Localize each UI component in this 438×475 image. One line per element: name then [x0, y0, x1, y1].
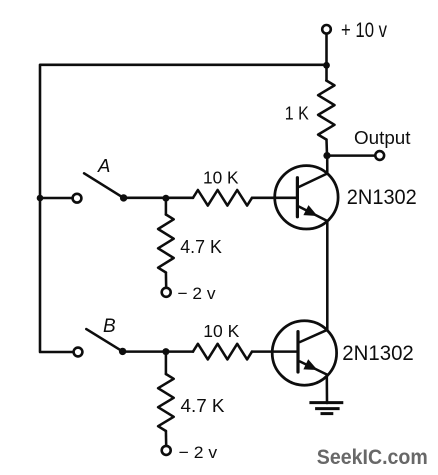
svg-text:1 K: 1 K	[285, 104, 309, 124]
svg-text:4.7 K: 4.7 K	[181, 396, 225, 416]
svg-text:SeekIC.com: SeekIC.com	[317, 446, 428, 469]
svg-text:A: A	[97, 155, 110, 176]
svg-text:+ 10 v: + 10 v	[341, 19, 387, 42]
svg-text:10 K: 10 K	[203, 168, 239, 188]
svg-text:− 2 v: − 2 v	[179, 443, 218, 462]
svg-text:10 K: 10 K	[203, 321, 239, 341]
svg-text:2N1302: 2N1302	[347, 185, 417, 209]
svg-text:2N1302: 2N1302	[342, 341, 414, 365]
svg-text:B: B	[103, 316, 116, 337]
svg-text:Output: Output	[354, 127, 411, 148]
svg-text:4.7 K: 4.7 K	[180, 237, 222, 257]
svg-text:− 2 v: − 2 v	[178, 284, 216, 303]
